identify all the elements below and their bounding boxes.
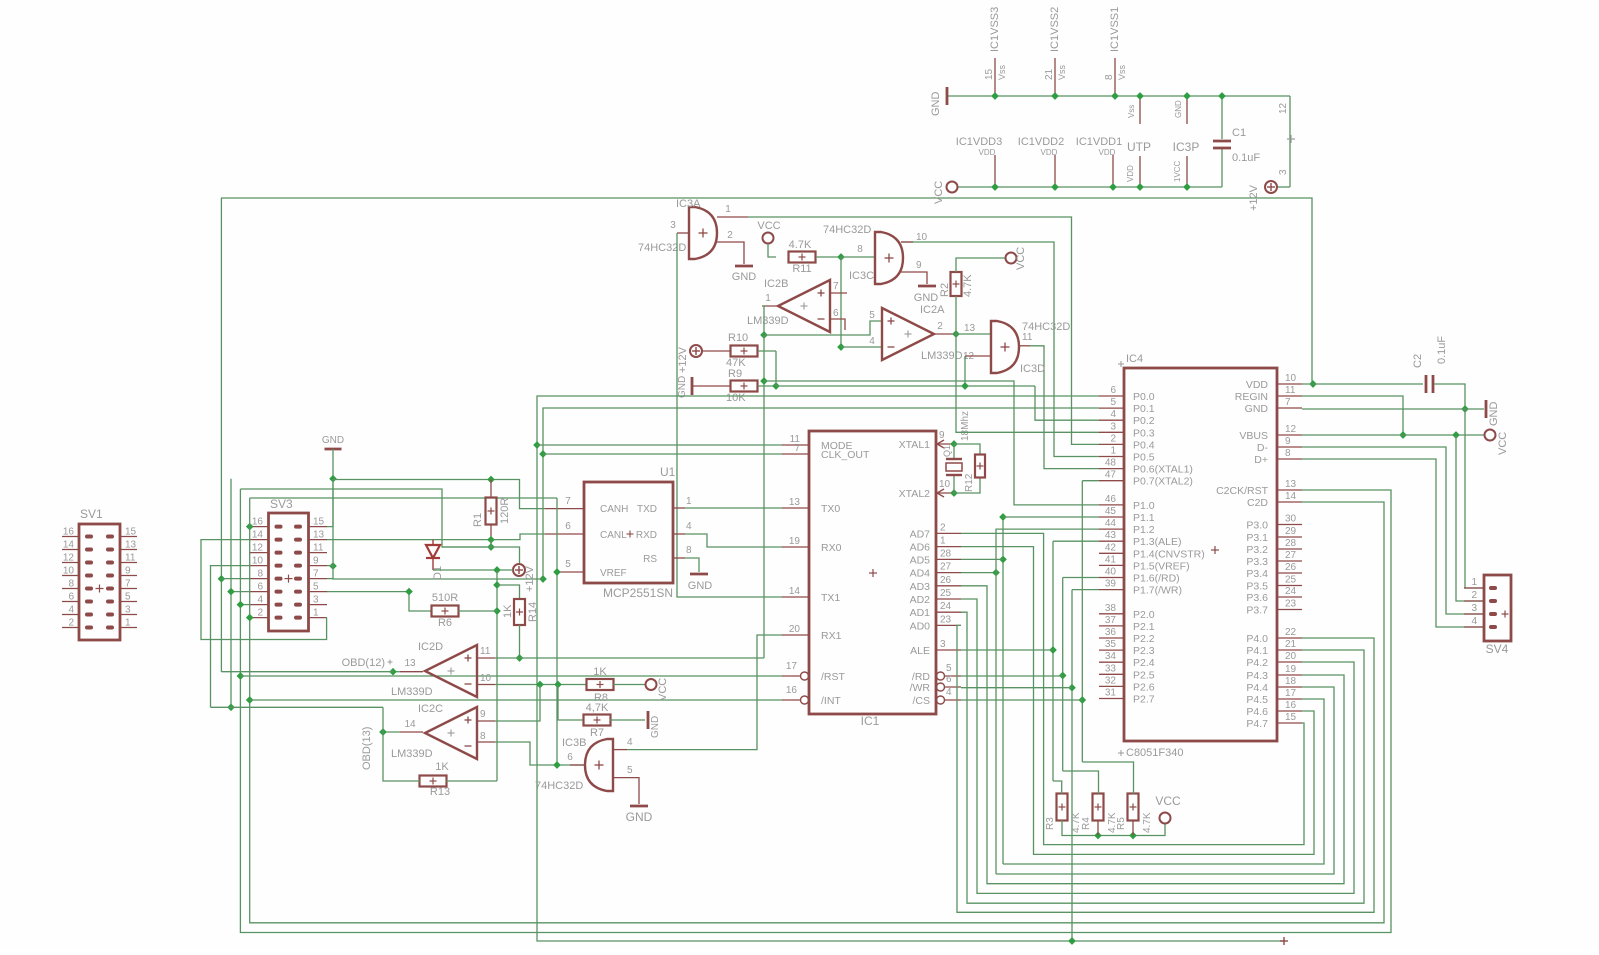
svg-text:22: 22 — [1285, 627, 1297, 638]
svg-text:/WR: /WR — [910, 682, 931, 694]
svg-text:VCC: VCC — [933, 181, 945, 204]
svg-text:VCC: VCC — [1497, 432, 1509, 455]
svg-text:48: 48 — [1105, 458, 1117, 469]
svg-text:510R: 510R — [432, 592, 458, 604]
svg-text:P2.6: P2.6 — [1133, 681, 1155, 693]
svg-text:7: 7 — [833, 281, 839, 292]
svg-text:13: 13 — [404, 658, 416, 669]
svg-text:8: 8 — [857, 244, 863, 255]
svg-text:4.7K: 4.7K — [962, 274, 974, 297]
svg-text:LM339D: LM339D — [747, 315, 789, 327]
svg-text:P3.0: P3.0 — [1246, 520, 1268, 532]
svg-text:4: 4 — [627, 737, 633, 748]
svg-text:P1.7(/WR): P1.7(/WR) — [1133, 585, 1182, 597]
svg-text:25: 25 — [940, 588, 952, 599]
svg-text:IC3D: IC3D — [1020, 363, 1045, 375]
svg-text:XTAL2: XTAL2 — [899, 488, 930, 500]
svg-text:28: 28 — [940, 548, 952, 559]
svg-text:10K: 10K — [726, 392, 746, 404]
svg-text:1VCC: 1VCC — [1173, 160, 1182, 182]
svg-text:IC1VSS1: IC1VSS1 — [1109, 7, 1121, 52]
svg-text:P2.5: P2.5 — [1133, 669, 1155, 681]
svg-text:40: 40 — [1105, 567, 1117, 578]
svg-text:TX1: TX1 — [821, 592, 840, 604]
svg-text:0.1uF: 0.1uF — [1436, 336, 1448, 364]
svg-text:5: 5 — [946, 663, 952, 674]
svg-text:26: 26 — [1285, 562, 1297, 573]
svg-text:15: 15 — [313, 517, 325, 528]
svg-text:LM339D: LM339D — [391, 748, 433, 760]
svg-text:17: 17 — [786, 661, 798, 672]
svg-text:34: 34 — [1105, 651, 1117, 662]
svg-text:5: 5 — [869, 310, 875, 321]
svg-text:C2D: C2D — [1247, 497, 1268, 509]
svg-text:P4.2: P4.2 — [1246, 657, 1268, 669]
svg-text:24: 24 — [940, 601, 952, 612]
svg-text:RXD: RXD — [636, 530, 657, 541]
svg-text:VDD: VDD — [1099, 148, 1116, 157]
svg-text:23: 23 — [1285, 599, 1297, 610]
svg-text:P2.2: P2.2 — [1133, 633, 1155, 645]
svg-text:13: 13 — [313, 530, 325, 541]
svg-text:44: 44 — [1105, 518, 1117, 529]
svg-text:6: 6 — [565, 521, 571, 532]
svg-text:P2.7: P2.7 — [1133, 694, 1155, 706]
svg-text:R4: R4 — [1081, 817, 1092, 830]
svg-text:R3: R3 — [1045, 817, 1056, 830]
svg-text:IC1VDD2: IC1VDD2 — [1018, 136, 1064, 148]
svg-text:45: 45 — [1105, 506, 1117, 517]
svg-text:GND: GND — [914, 292, 939, 304]
svg-text:47: 47 — [1105, 470, 1117, 481]
svg-text:13: 13 — [789, 497, 801, 508]
svg-text:C2CK/RST: C2CK/RST — [1216, 485, 1269, 497]
svg-text:P0.2: P0.2 — [1133, 415, 1155, 427]
svg-text:+12V: +12V — [1248, 184, 1260, 211]
svg-text:4: 4 — [946, 687, 952, 698]
svg-text:74HC32D: 74HC32D — [823, 224, 871, 236]
svg-text:1K: 1K — [502, 604, 514, 618]
svg-text:P4.4: P4.4 — [1246, 682, 1268, 694]
svg-text:17: 17 — [1285, 688, 1297, 699]
svg-text:AD2: AD2 — [910, 594, 931, 606]
svg-text:IC1: IC1 — [861, 714, 880, 728]
svg-text:10: 10 — [252, 556, 264, 567]
svg-text:23: 23 — [940, 614, 952, 625]
svg-text:1: 1 — [725, 204, 731, 215]
svg-text:1: 1 — [686, 496, 692, 507]
svg-text:XTAL1: XTAL1 — [899, 439, 930, 451]
svg-text:P2.1: P2.1 — [1133, 621, 1155, 633]
svg-text:3: 3 — [313, 595, 319, 606]
svg-text:IC2C: IC2C — [418, 703, 443, 715]
svg-text:14: 14 — [63, 540, 75, 551]
svg-text:GND: GND — [677, 376, 688, 398]
svg-text:8: 8 — [68, 579, 74, 590]
svg-text:VCC: VCC — [657, 678, 669, 701]
svg-text:GND: GND — [626, 810, 653, 824]
svg-text:P2.4: P2.4 — [1133, 657, 1155, 669]
svg-text:4.7K: 4.7K — [1142, 812, 1153, 833]
svg-text:SV1: SV1 — [80, 507, 103, 521]
svg-text:P3.2: P3.2 — [1246, 544, 1268, 556]
svg-text:6: 6 — [833, 308, 839, 319]
svg-text:AD4: AD4 — [910, 568, 931, 580]
svg-text:7: 7 — [313, 569, 319, 580]
svg-text:21: 21 — [1044, 68, 1055, 80]
svg-text:8: 8 — [686, 545, 692, 556]
svg-text:4: 4 — [257, 595, 263, 606]
svg-text:8: 8 — [1285, 448, 1291, 459]
svg-text:35: 35 — [1105, 639, 1117, 650]
svg-text:P0.0: P0.0 — [1133, 391, 1155, 403]
svg-text:D-: D- — [1257, 442, 1269, 454]
svg-text:3: 3 — [670, 220, 676, 231]
svg-text:Vss: Vss — [997, 64, 1007, 80]
svg-text:5: 5 — [627, 765, 633, 776]
svg-text:IC2B: IC2B — [764, 278, 788, 290]
svg-text:P3.7: P3.7 — [1246, 605, 1268, 617]
svg-text:P3.6: P3.6 — [1246, 592, 1268, 604]
svg-text:P3.1: P3.1 — [1246, 532, 1268, 544]
svg-text:R7: R7 — [590, 727, 604, 739]
svg-text:4: 4 — [1471, 616, 1477, 627]
svg-text:AD1: AD1 — [910, 607, 931, 619]
svg-text:10: 10 — [916, 232, 928, 243]
svg-text:VDD: VDD — [1126, 165, 1135, 182]
svg-text:D+: D+ — [1254, 454, 1268, 466]
svg-text:P3.4: P3.4 — [1246, 568, 1268, 580]
svg-text:11: 11 — [480, 646, 491, 657]
svg-text:IC3A: IC3A — [676, 198, 701, 210]
svg-text:9: 9 — [939, 430, 945, 441]
svg-text:+12V: +12V — [677, 346, 689, 373]
svg-text:4,7K: 4,7K — [586, 702, 609, 714]
svg-text:GND: GND — [322, 435, 344, 446]
svg-text:41: 41 — [1105, 554, 1117, 565]
svg-text:8: 8 — [257, 569, 263, 580]
svg-text:18Mhz: 18Mhz — [960, 411, 971, 441]
svg-text:19: 19 — [789, 536, 801, 547]
svg-text:1: 1 — [1110, 446, 1116, 457]
svg-text:IC4: IC4 — [1126, 353, 1143, 365]
svg-text:AD0: AD0 — [910, 620, 931, 632]
svg-text:5: 5 — [313, 582, 319, 593]
svg-text:C8051F340: C8051F340 — [1126, 747, 1184, 759]
svg-text:9: 9 — [313, 556, 319, 567]
svg-text:20: 20 — [789, 624, 801, 635]
svg-text:R12: R12 — [964, 473, 975, 492]
svg-text:120R: 120R — [499, 498, 511, 524]
svg-text:6: 6 — [257, 582, 263, 593]
svg-text:CANL: CANL — [600, 530, 627, 541]
svg-text:GND: GND — [1488, 402, 1500, 427]
svg-text:VREF: VREF — [600, 568, 627, 579]
svg-text:CLK_OUT: CLK_OUT — [821, 449, 870, 461]
svg-text:10: 10 — [939, 479, 951, 490]
svg-text:29: 29 — [1285, 526, 1297, 537]
svg-text:14: 14 — [789, 586, 801, 597]
svg-text:TXD: TXD — [637, 504, 657, 515]
svg-text:11: 11 — [1022, 332, 1033, 343]
svg-text:CANH: CANH — [600, 504, 628, 515]
svg-text:2: 2 — [727, 230, 733, 241]
svg-text:3: 3 — [125, 605, 131, 616]
svg-text:12: 12 — [1278, 102, 1289, 114]
svg-text:P3.5: P3.5 — [1246, 581, 1268, 593]
svg-text:R13: R13 — [430, 786, 450, 798]
svg-text:3: 3 — [1471, 603, 1477, 614]
svg-text:R6: R6 — [438, 617, 452, 629]
svg-text:GND: GND — [688, 580, 713, 592]
svg-text:1: 1 — [940, 536, 946, 547]
svg-text:VCC: VCC — [1015, 247, 1027, 270]
svg-text:1: 1 — [765, 293, 771, 304]
svg-text:9: 9 — [125, 566, 131, 577]
svg-text:5: 5 — [1110, 397, 1116, 408]
svg-text:4: 4 — [68, 605, 74, 616]
svg-text:GND: GND — [930, 92, 942, 117]
svg-text:/RST: /RST — [821, 671, 846, 683]
svg-text:Q1: Q1 — [942, 445, 952, 457]
svg-text:11: 11 — [313, 543, 324, 554]
svg-text:0.1uF: 0.1uF — [1232, 152, 1260, 164]
svg-text:UTP: UTP — [1127, 140, 1151, 154]
svg-text:1K: 1K — [435, 761, 449, 773]
svg-text:5: 5 — [565, 559, 571, 570]
svg-text:P4.6: P4.6 — [1246, 706, 1268, 718]
svg-text:VBUS: VBUS — [1239, 430, 1268, 442]
svg-text:6: 6 — [1110, 385, 1116, 396]
svg-text:26: 26 — [940, 575, 952, 586]
svg-text:31: 31 — [1105, 688, 1117, 699]
svg-text:MCP2551SN: MCP2551SN — [603, 586, 673, 600]
svg-text:14: 14 — [1285, 491, 1297, 502]
svg-text:12: 12 — [252, 543, 264, 554]
svg-text:74HC32D: 74HC32D — [638, 242, 686, 254]
svg-text:4.7K: 4.7K — [789, 239, 812, 251]
svg-text:ALE: ALE — [910, 645, 930, 657]
svg-text:Vss: Vss — [1117, 64, 1127, 80]
svg-text:36: 36 — [1105, 627, 1117, 638]
svg-text:14: 14 — [252, 530, 264, 541]
svg-text:19: 19 — [1285, 664, 1297, 675]
svg-text:RS: RS — [643, 554, 657, 565]
svg-text:AD3: AD3 — [910, 581, 931, 593]
svg-text:/CS: /CS — [912, 695, 930, 707]
svg-text:5: 5 — [125, 592, 131, 603]
svg-text:30: 30 — [1285, 514, 1297, 525]
svg-text:Vss: Vss — [1057, 64, 1067, 80]
svg-text:24: 24 — [1285, 586, 1297, 597]
svg-text:AD5: AD5 — [910, 554, 931, 566]
svg-text:VDD: VDD — [1041, 148, 1058, 157]
svg-text:C1: C1 — [1232, 127, 1246, 139]
svg-text:P1.6(/RD): P1.6(/RD) — [1133, 573, 1180, 585]
svg-text:IC3B: IC3B — [562, 737, 586, 749]
svg-text:P0.4: P0.4 — [1133, 439, 1155, 451]
svg-text:2: 2 — [1110, 433, 1116, 444]
svg-text:GND: GND — [650, 716, 661, 738]
svg-text:13: 13 — [964, 323, 976, 334]
svg-text:10: 10 — [1285, 373, 1297, 384]
svg-text:46: 46 — [1105, 494, 1117, 505]
svg-text:21: 21 — [1285, 639, 1297, 650]
svg-text:2: 2 — [937, 321, 943, 332]
svg-text:P1.0: P1.0 — [1133, 500, 1155, 512]
svg-text:38: 38 — [1105, 603, 1117, 614]
svg-text:REGIN: REGIN — [1235, 391, 1268, 403]
svg-text:P2.0: P2.0 — [1133, 609, 1155, 621]
svg-text:16: 16 — [252, 517, 264, 528]
svg-text:IC3C: IC3C — [849, 270, 874, 282]
svg-text:TX0: TX0 — [821, 503, 840, 515]
svg-text:R9: R9 — [728, 368, 742, 380]
svg-text:Vss: Vss — [1127, 105, 1136, 118]
svg-text:R11: R11 — [792, 263, 811, 275]
svg-text:7: 7 — [125, 579, 131, 590]
svg-text:20: 20 — [1285, 651, 1297, 662]
svg-text:P0.6(XTAL1): P0.6(XTAL1) — [1133, 464, 1193, 476]
svg-text:6: 6 — [946, 674, 952, 685]
svg-text:VDD: VDD — [979, 148, 996, 157]
svg-text:LM339D: LM339D — [391, 686, 433, 698]
svg-text:1K: 1K — [593, 666, 607, 678]
svg-text:43: 43 — [1105, 530, 1117, 541]
svg-text:27: 27 — [1285, 550, 1297, 561]
svg-text:2: 2 — [940, 522, 946, 533]
svg-text:IC1VSS2: IC1VSS2 — [1049, 7, 1061, 52]
svg-text:4: 4 — [686, 521, 692, 532]
svg-text:8: 8 — [1104, 74, 1115, 80]
svg-text:8: 8 — [480, 731, 486, 742]
svg-text:IC2D: IC2D — [418, 641, 443, 653]
svg-text:1: 1 — [1471, 577, 1477, 588]
svg-text:2: 2 — [68, 618, 74, 629]
svg-text:VCC: VCC — [1155, 794, 1181, 808]
svg-text:16: 16 — [1285, 700, 1297, 711]
svg-text:P0.3: P0.3 — [1133, 427, 1155, 439]
svg-text:4: 4 — [1110, 409, 1116, 420]
svg-text:28: 28 — [1285, 538, 1297, 549]
svg-text:P4.3: P4.3 — [1246, 670, 1268, 682]
svg-text:15: 15 — [1285, 712, 1297, 723]
svg-text:14: 14 — [404, 719, 416, 730]
svg-text:P1.3(ALE): P1.3(ALE) — [1133, 536, 1181, 548]
svg-text:9: 9 — [916, 260, 922, 271]
svg-text:37: 37 — [1105, 615, 1117, 626]
svg-text:9: 9 — [480, 709, 486, 720]
svg-text:+12V: +12V — [524, 565, 536, 592]
svg-text:12: 12 — [63, 553, 75, 564]
svg-text:OBD(12): OBD(12) — [342, 657, 385, 669]
svg-text:7: 7 — [794, 443, 800, 454]
svg-text:VDD: VDD — [1246, 379, 1269, 391]
svg-text:GND: GND — [1245, 403, 1269, 415]
svg-text:33: 33 — [1105, 663, 1117, 674]
svg-text:P1.4(CNVSTR): P1.4(CNVSTR) — [1133, 548, 1205, 560]
svg-text:R2: R2 — [939, 283, 951, 297]
svg-text:1: 1 — [313, 608, 319, 619]
svg-text:3: 3 — [1110, 421, 1116, 432]
svg-text:10: 10 — [63, 566, 75, 577]
svg-text:SV3: SV3 — [270, 497, 293, 511]
svg-text:9: 9 — [1285, 436, 1291, 447]
svg-text:6: 6 — [68, 592, 74, 603]
svg-text:P4.5: P4.5 — [1246, 694, 1268, 706]
svg-text:39: 39 — [1105, 579, 1117, 590]
svg-text:27: 27 — [940, 562, 952, 573]
svg-text:IC1VDD3: IC1VDD3 — [956, 136, 1002, 148]
svg-text:IC1VDD1: IC1VDD1 — [1076, 136, 1122, 148]
svg-text:C2: C2 — [1412, 354, 1424, 368]
svg-text:1: 1 — [125, 618, 131, 629]
svg-text:/INT: /INT — [821, 695, 841, 707]
svg-text:11: 11 — [125, 553, 136, 564]
svg-text:R1: R1 — [472, 513, 484, 527]
svg-text:16: 16 — [786, 685, 798, 696]
svg-text:12: 12 — [1285, 424, 1297, 435]
svg-text:P4.7: P4.7 — [1246, 718, 1268, 730]
svg-text:16: 16 — [63, 527, 75, 538]
svg-text:P1.1: P1.1 — [1133, 512, 1155, 524]
svg-text:13: 13 — [1285, 479, 1297, 490]
svg-text:SV4: SV4 — [1486, 642, 1509, 656]
svg-text:15: 15 — [984, 68, 995, 80]
svg-text:IC2A: IC2A — [920, 304, 945, 316]
svg-text:RX1: RX1 — [821, 630, 842, 642]
svg-text:R5: R5 — [1116, 817, 1127, 830]
svg-text:P2.3: P2.3 — [1133, 645, 1155, 657]
svg-text:VCC: VCC — [757, 220, 780, 232]
svg-text:AD7: AD7 — [910, 528, 931, 540]
svg-text:P1.5(VREF): P1.5(VREF) — [1133, 560, 1190, 572]
svg-text:P4.1: P4.1 — [1246, 645, 1268, 657]
svg-text:D1: D1 — [432, 566, 444, 580]
svg-text:IC3P: IC3P — [1173, 140, 1200, 154]
svg-text:P3.3: P3.3 — [1246, 556, 1268, 568]
svg-text:25: 25 — [1285, 575, 1297, 586]
svg-text:4: 4 — [869, 336, 875, 347]
svg-text:GND: GND — [732, 271, 757, 283]
svg-text:P4.0: P4.0 — [1246, 633, 1268, 645]
svg-text:P1.2: P1.2 — [1133, 524, 1155, 536]
svg-text:GND: GND — [1174, 100, 1183, 118]
svg-text:IC1VSS3: IC1VSS3 — [989, 7, 1001, 52]
svg-text:OBD(13): OBD(13) — [361, 727, 373, 770]
svg-text:3: 3 — [1278, 169, 1289, 175]
svg-text:2: 2 — [1471, 590, 1477, 601]
svg-text:42: 42 — [1105, 542, 1117, 553]
svg-text:R10: R10 — [728, 332, 748, 344]
svg-text:P0.5: P0.5 — [1133, 452, 1155, 464]
svg-text:AD6: AD6 — [910, 542, 931, 554]
svg-text:13: 13 — [125, 540, 137, 551]
svg-text:RX0: RX0 — [821, 542, 842, 554]
svg-text:18: 18 — [1285, 676, 1297, 687]
svg-text:74HC32D: 74HC32D — [535, 780, 583, 792]
svg-text:7: 7 — [565, 496, 571, 507]
svg-text:32: 32 — [1105, 675, 1117, 686]
svg-text:U1: U1 — [660, 465, 676, 479]
svg-text:15: 15 — [125, 527, 137, 538]
svg-text:R14: R14 — [527, 602, 539, 622]
svg-text:P0.1: P0.1 — [1133, 403, 1155, 415]
svg-text:6: 6 — [567, 752, 573, 763]
svg-text:10: 10 — [480, 673, 492, 684]
svg-text:11: 11 — [1285, 385, 1296, 396]
svg-text:7: 7 — [1285, 397, 1291, 408]
